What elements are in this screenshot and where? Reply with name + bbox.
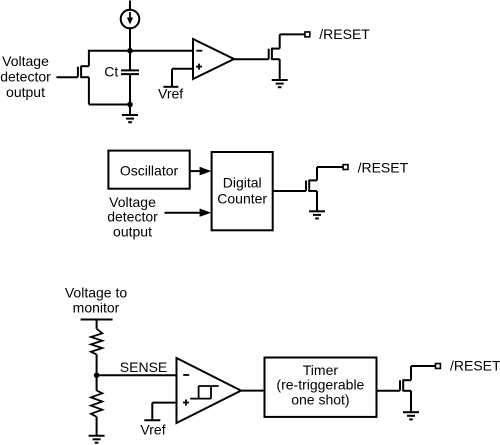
svg-text:Counter: Counter <box>217 191 267 207</box>
transistor Q1 gate bar <box>77 67 79 78</box>
wire terminal to R1 <box>96 320 98 329</box>
terminal T1 square <box>305 32 310 37</box>
transistor Q1 gate lead <box>56 76 78 78</box>
transistor Q1 drain vertical <box>88 50 90 66</box>
svg-text:/RESET: /RESET <box>450 358 500 374</box>
wire Q1 source to node B <box>89 104 130 106</box>
Oscillator box <box>108 151 189 189</box>
svg-text:(re-triggerable: (re-triggerable <box>276 377 364 393</box>
arrowhead into Digital Counter (reset) <box>200 209 212 217</box>
ground G3 bars <box>309 210 325 212</box>
wire Oscillator to Digital Counter <box>190 170 201 172</box>
wire node C to comparator minus input (SENSE) <box>97 374 177 376</box>
wire Q4 drain to terminal T3 <box>411 365 435 367</box>
transistor Q4 gate bar <box>399 380 401 391</box>
transistor Q4 source vertical <box>410 391 412 412</box>
transistor Q2 drain stub <box>272 48 280 50</box>
capacitor Ct top lead <box>129 51 131 70</box>
transistor Q1 source stub <box>81 76 89 78</box>
wire op-amp output to Q2 gate <box>234 58 269 60</box>
voltage-to-monitor terminal bar <box>81 319 113 321</box>
svg-text:Voltage to: Voltage to <box>65 285 127 301</box>
Vref2 stem <box>151 403 153 421</box>
wire current source to node A <box>129 28 131 50</box>
svg-text:/RESET: /RESET <box>319 26 370 42</box>
transistor Q3 source vertical <box>316 191 318 211</box>
transistor Q1 drain stub <box>81 65 89 67</box>
current source I1 top lead <box>129 1 131 10</box>
svg-text:Voltage: Voltage <box>2 53 49 69</box>
comparator U2 triangle <box>177 358 242 423</box>
svg-text:output: output <box>6 84 45 100</box>
wire Vref2 to comparator plus input <box>152 402 176 404</box>
ground G4 bars <box>89 435 105 437</box>
node C junction dot <box>94 373 100 379</box>
Digital Counter box <box>212 152 273 230</box>
node B junction dot <box>127 102 133 108</box>
capacitor Ct bottom plate <box>121 73 139 75</box>
arrowhead into Digital Counter (clock) <box>200 167 212 176</box>
resistor R2 zigzag <box>91 391 102 417</box>
svg-text:Ct: Ct <box>104 63 118 79</box>
ground G2 bars <box>272 79 288 81</box>
Vref1 stem <box>171 69 173 87</box>
transistor Q2 channel bar <box>271 48 273 60</box>
wire comparator output to Timer box <box>241 390 265 392</box>
svg-text:Oscillator: Oscillator <box>120 163 179 179</box>
wire Q2 drain to terminal T1 <box>280 33 305 35</box>
transistor Q3 drain stub <box>309 179 317 181</box>
transistor Q4 channel bar <box>402 379 404 391</box>
svg-text:detector: detector <box>107 209 158 225</box>
comparator U2 plus sign <box>183 400 189 406</box>
op-amp U1 minus sign <box>196 50 202 52</box>
svg-text:Timer: Timer <box>303 362 339 378</box>
Vref1 bar <box>163 86 178 88</box>
current source I1 circle <box>121 10 140 29</box>
svg-text:Vref: Vref <box>140 422 165 438</box>
wire node A to op-amp minus input <box>89 50 193 52</box>
terminal T2 square <box>343 165 348 170</box>
ground G5 bars <box>403 411 419 413</box>
capacitor Ct bottom lead <box>129 75 131 105</box>
wire voltage detector output arrow line <box>165 212 202 214</box>
wire node C to R2 <box>96 375 98 390</box>
op-amp U1 triangle <box>193 39 234 79</box>
transistor Q3 gate bar <box>305 181 307 192</box>
current source I1 arrow <box>129 12 131 18</box>
Vref2 bar <box>144 419 160 421</box>
svg-text:Digital: Digital <box>223 174 262 190</box>
transistor Q1 channel bar <box>80 66 82 78</box>
svg-text:SENSE: SENSE <box>120 359 167 375</box>
transistor Q3 source stub <box>309 190 317 192</box>
op-amp U1 plus sign <box>196 64 202 70</box>
transistor Q2 source vertical <box>279 59 281 80</box>
comparator U2 hysteresis glyph <box>190 386 218 399</box>
wire Digital Counter output to Q3 gate <box>273 190 306 192</box>
transistor Q2 gate bar <box>268 49 270 60</box>
transistor Q4 drain stub <box>403 379 411 381</box>
node A junction dot <box>127 48 133 54</box>
resistor R1 zigzag <box>91 329 102 355</box>
transistor Q3 drain vertical <box>316 167 318 180</box>
svg-text:one shot): one shot) <box>291 391 349 407</box>
comparator U2 minus sign <box>183 374 189 376</box>
capacitor Ct top plate <box>121 69 139 71</box>
svg-text:monitor: monitor <box>73 300 120 316</box>
ground G1 bars <box>122 114 138 116</box>
svg-text:detector: detector <box>0 68 51 84</box>
transistor Q3 channel bar <box>308 180 310 192</box>
svg-text:Voltage: Voltage <box>109 194 156 210</box>
transistor Q2 drain vertical <box>279 34 281 48</box>
transistor Q4 drain vertical <box>410 366 412 380</box>
svg-text:/RESET: /RESET <box>358 159 409 175</box>
wire Q3 drain to terminal T2 <box>317 166 343 168</box>
svg-text:Vref: Vref <box>158 85 183 101</box>
Timer box <box>265 358 377 417</box>
wire R2 to ground G4 <box>96 417 98 436</box>
wire Vref1 to op-amp plus input <box>172 68 193 70</box>
transistor Q1 source vertical <box>88 77 90 104</box>
transistor Q4 source stub <box>403 390 411 392</box>
wire Timer output to Q4 gate <box>377 390 401 392</box>
svg-text:output: output <box>113 223 152 239</box>
ground G1 stem <box>129 105 131 116</box>
wire R1 to node C <box>96 354 98 375</box>
terminal T3 square <box>436 364 441 369</box>
transistor Q2 source stub <box>272 58 280 60</box>
